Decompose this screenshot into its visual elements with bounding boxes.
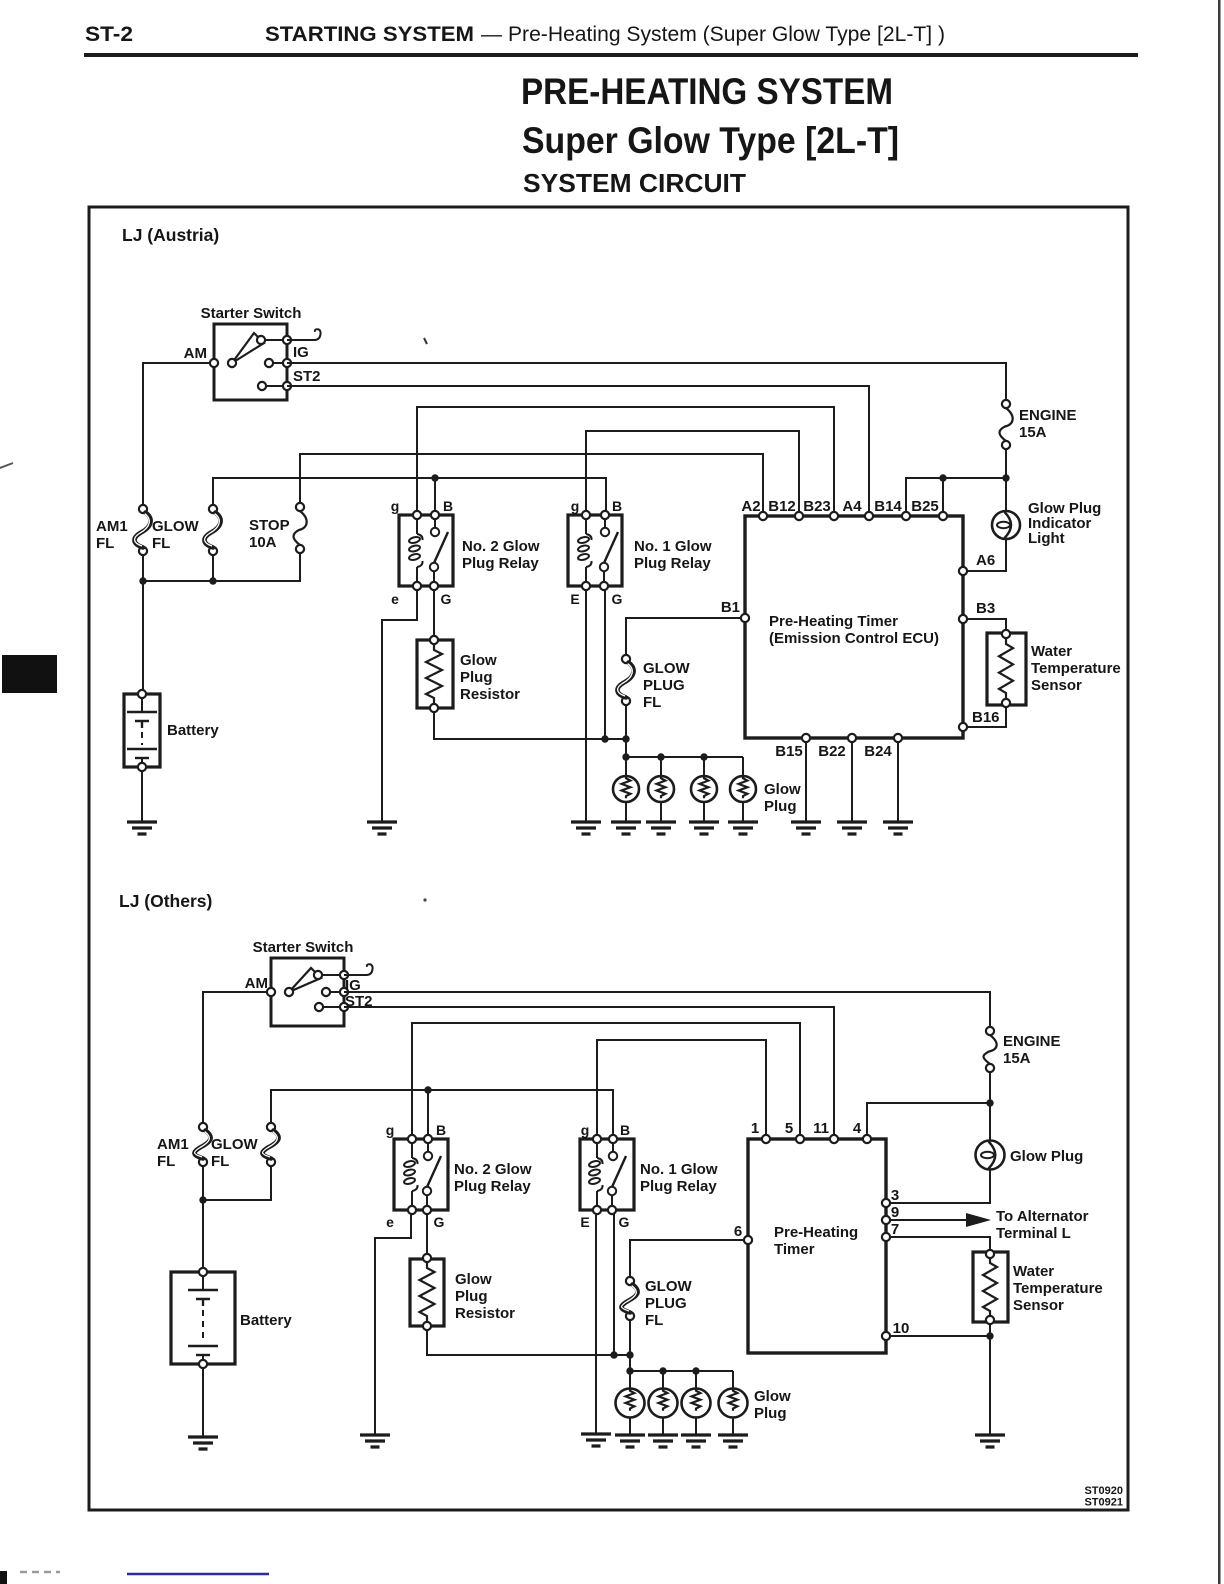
section label LJ (Austria) <box>122 225 219 245</box>
svg-text:B: B <box>620 1122 630 1138</box>
svg-text:Super Glow Type [2L-T]: Super Glow Type [2L-T] <box>522 120 899 161</box>
wire B22 ground <box>851 742 853 822</box>
label Glow Plug Resistor (2) <box>455 1271 515 1322</box>
label Water Temperature Sensor <box>1031 643 1121 694</box>
ground relay2 e (2) <box>360 1435 390 1447</box>
wire relay1 g to B12 <box>586 431 799 512</box>
ground relay1 E (2) <box>581 1434 611 1446</box>
svg-text:Light: Light <box>1028 530 1065 547</box>
lamp Glow Plug (2) <box>976 1141 1005 1170</box>
terminal 3 <box>882 1199 890 1207</box>
svg-text:B14: B14 <box>874 498 902 515</box>
timer top terminals (2) <box>762 1135 871 1143</box>
wire AM feed (2) <box>203 992 271 1123</box>
svg-text:GLOW: GLOW <box>152 518 199 535</box>
speck near LJ others <box>423 898 426 901</box>
wire glow plug bus <box>626 756 743 758</box>
relay No.1 Glow Plug Relay <box>568 511 622 590</box>
page header left "ST-2" <box>85 23 133 46</box>
svg-text:AM1: AM1 <box>96 518 128 535</box>
svg-text:B23: B23 <box>803 498 831 515</box>
svg-text:15A: 15A <box>1019 424 1047 441</box>
sensor Water Temperature Sensor <box>987 630 1026 707</box>
svg-text:No. 1 Glow: No. 1 Glow <box>634 538 712 555</box>
svg-text:Resistor: Resistor <box>455 1305 515 1322</box>
svg-text:Temperature: Temperature <box>1031 660 1121 677</box>
terminal 10 <box>882 1332 890 1340</box>
svg-text:STARTING SYSTEM: STARTING SYSTEM <box>265 22 474 46</box>
labels relay2 pins (2) <box>386 1122 446 1230</box>
ground glow plug 2 (2) <box>648 1435 678 1447</box>
fuse ENGINE 15A <box>999 400 1012 449</box>
ground glow plug 4 <box>728 822 758 834</box>
wire lamp to 3 <box>890 1170 990 1203</box>
label ENGINE 15A (2) <box>1003 1033 1061 1067</box>
wire glow plug 2 stub <box>660 757 662 776</box>
svg-text:4: 4 <box>853 1120 862 1137</box>
wire sensor to B16 <box>968 707 1006 727</box>
label Glow Plug lamp (2) <box>1010 1148 1083 1165</box>
sensor Water Temperature Sensor (2) <box>973 1250 1008 1324</box>
svg-text:A2: A2 <box>741 498 760 515</box>
fusible link GLOW PLUG FL <box>617 655 633 705</box>
svg-text:FL: FL <box>152 535 170 552</box>
junction GLOW bottom <box>209 577 216 584</box>
svg-text:FL: FL <box>645 1312 663 1329</box>
label AM (2) <box>245 975 268 992</box>
label GLOW FL <box>152 518 199 552</box>
svg-text:ENGINE: ENGINE <box>1003 1033 1061 1050</box>
section label LJ (Others) <box>119 891 212 911</box>
starter switch SW2 <box>267 958 348 1026</box>
wire GLOW to B bus (2) <box>271 1090 613 1135</box>
ground relay2 e <box>367 822 397 834</box>
wire relay2 g to B23 <box>417 407 834 512</box>
svg-text:Timer: Timer <box>774 1241 815 1258</box>
wire glow plug 4 gnd <box>742 802 744 822</box>
wire battery feed <box>142 581 144 690</box>
wire IG line (2) <box>344 992 990 1027</box>
ground glow plug 1 <box>611 822 641 834</box>
svg-text:No. 1 Glow: No. 1 Glow <box>640 1161 718 1178</box>
outer frame <box>89 207 1128 1510</box>
starter switch SW1 <box>210 324 291 400</box>
svg-text:B15: B15 <box>775 743 803 760</box>
wire battery feed (2) <box>202 1166 204 1268</box>
label STOP 10A <box>249 517 290 551</box>
svg-text:Plug Relay: Plug Relay <box>634 555 711 572</box>
svg-text:LJ (Others): LJ (Others) <box>119 891 212 911</box>
junction bus 2 <box>657 753 664 760</box>
page mark bottom-left bar <box>0 1571 7 1584</box>
svg-text:Glow: Glow <box>764 781 801 798</box>
label ST2 <box>293 368 321 385</box>
wire glow plug 4 stub (2) <box>732 1371 734 1389</box>
glow plug 3 <box>691 776 717 802</box>
svg-text:6: 6 <box>734 1223 742 1240</box>
junction lamp feed (2) <box>986 1099 993 1106</box>
title SYSTEM CIRCUIT <box>523 168 746 198</box>
wire relay2 e to ground (2) <box>375 1214 411 1435</box>
label 10 <box>893 1320 910 1337</box>
wire relay1 g to 1 <box>597 1040 766 1135</box>
ground glow plug 2 <box>646 822 676 834</box>
junction AM1 (2) <box>199 1196 206 1203</box>
svg-text:Water: Water <box>1013 1263 1054 1280</box>
wire 10 line <box>890 1335 990 1337</box>
label A6 <box>976 552 995 569</box>
junction G1/resistor (2) <box>610 1351 617 1358</box>
wire 7 to sensor <box>890 1237 990 1250</box>
label B16 <box>972 709 1000 726</box>
wire ST2 line (2) <box>344 1007 834 1135</box>
svg-text:AM: AM <box>184 345 207 362</box>
svg-text:B25: B25 <box>911 498 939 515</box>
arrow to alternator <box>966 1213 991 1227</box>
relay No.2 Glow Plug Relay <box>399 511 453 590</box>
wire B15 ground <box>805 742 807 822</box>
fusible link GLOW FL (2) <box>262 1123 278 1166</box>
page edge line right <box>1218 0 1221 1584</box>
ECU Pre-Heating Timer box <box>745 516 963 738</box>
svg-text:Pre-Heating: Pre-Heating <box>774 1224 858 1241</box>
ECU Pre-Heating Timer box (2) <box>748 1139 886 1353</box>
relay No.2 Glow Plug Relay (2) <box>394 1135 448 1214</box>
page tick left <box>0 463 13 468</box>
wire relay2 B drop <box>434 478 436 512</box>
svg-text:Sensor: Sensor <box>1013 1297 1064 1314</box>
labels relay2 pins <box>391 498 453 607</box>
svg-text:PLUG: PLUG <box>645 1295 687 1312</box>
wire relay1 E to ground (2) <box>595 1214 597 1434</box>
svg-text:FL: FL <box>643 694 661 711</box>
wire relay2 G to resistor (2) <box>426 1214 428 1255</box>
lamp Glow Plug Indicator Light <box>992 511 1020 539</box>
svg-text:g: g <box>571 498 580 514</box>
ground battery <box>127 822 157 834</box>
svg-text:B: B <box>443 498 453 514</box>
svg-text:B: B <box>436 1122 446 1138</box>
page header title <box>265 22 945 46</box>
label No. 2 Glow Plug Relay (2) <box>454 1161 532 1195</box>
label ST2 (2) <box>345 993 373 1010</box>
svg-text:G: G <box>434 1214 445 1230</box>
glow plug 2 (2) <box>649 1389 678 1418</box>
svg-text:Temperature: Temperature <box>1013 1280 1103 1297</box>
junction AM1 bottom <box>139 577 146 584</box>
wire glow plug 3 gnd (2) <box>695 1417 697 1435</box>
svg-text:Plug: Plug <box>754 1405 787 1422</box>
svg-text:Terminal L: Terminal L <box>996 1225 1071 1242</box>
wire FL to bus <box>625 705 627 757</box>
wire glow plug 2 gnd (2) <box>662 1417 664 1435</box>
ground sensor (2) <box>975 1435 1005 1447</box>
svg-text:IG: IG <box>293 344 309 361</box>
svg-text:(Emission Control ECU): (Emission Control ECU) <box>769 630 939 647</box>
label Pre-Heating Timer <box>769 613 939 647</box>
svg-text:15A: 15A <box>1003 1050 1031 1067</box>
svg-text:Plug Relay: Plug Relay <box>454 1178 531 1195</box>
label AM <box>184 345 207 362</box>
wire glow plug 1 gnd (2) <box>629 1417 631 1435</box>
label No. 1 Glow Plug Relay <box>634 538 712 572</box>
svg-text:G: G <box>619 1214 630 1230</box>
svg-text:Starter Switch: Starter Switch <box>253 939 354 956</box>
header rule <box>84 53 1138 57</box>
svg-text:1: 1 <box>751 1120 759 1137</box>
label B3 <box>976 600 995 617</box>
label B1 <box>721 599 740 616</box>
timer top terminals <box>759 512 947 520</box>
wire glow plug 2 gnd <box>660 802 662 822</box>
junction FL/resistor (2) <box>626 1351 633 1358</box>
svg-text:g: g <box>581 1122 590 1138</box>
page mark blue line <box>127 1573 269 1576</box>
junction 10/sensor <box>986 1332 993 1339</box>
label Starter Switch <box>201 305 302 322</box>
svg-text:Resistor: Resistor <box>460 686 520 703</box>
wire glow plug 4 stub <box>742 757 744 776</box>
timer bottom terminals <box>802 734 902 742</box>
wire accessory hook (2) <box>344 964 373 975</box>
ground B24 <box>883 822 913 834</box>
junction B25 feed <box>939 474 946 481</box>
svg-text:No. 2 Glow: No. 2 Glow <box>462 538 540 555</box>
svg-text:E: E <box>570 591 579 607</box>
wire IG line <box>287 363 1006 400</box>
terminal B1 <box>741 614 749 622</box>
wire glow plug 3 stub <box>703 757 705 776</box>
label To Alternator Terminal L <box>996 1208 1089 1242</box>
wire relay2 g to 5 <box>412 1023 800 1135</box>
label IG <box>293 344 309 361</box>
svg-text:B22: B22 <box>818 743 846 760</box>
svg-text:ENGINE: ENGINE <box>1019 407 1077 424</box>
label GLOW PLUG FL <box>643 660 690 711</box>
svg-text:PLUG: PLUG <box>643 677 685 694</box>
wire FL to bus (2) <box>629 1320 631 1371</box>
wire relay2 e to ground <box>382 590 417 822</box>
junction GLOW/B2 (2) <box>424 1086 431 1093</box>
label GLOW PLUG FL (2) <box>645 1278 692 1329</box>
terminal B16 <box>959 723 967 731</box>
wire glow plug 3 stub (2) <box>695 1371 697 1389</box>
junction GLOW/B2 <box>431 474 438 481</box>
svg-text:Plug: Plug <box>764 798 797 815</box>
code ST0920/ST0921 <box>1084 1485 1123 1509</box>
svg-text:SYSTEM CIRCUIT: SYSTEM CIRCUIT <box>523 168 746 198</box>
svg-text:ST2: ST2 <box>293 368 321 385</box>
wire STOP to A2 <box>300 454 763 512</box>
svg-text:A4: A4 <box>842 498 862 515</box>
svg-text:Plug Relay: Plug Relay <box>640 1178 717 1195</box>
label 6 <box>734 1223 742 1240</box>
svg-text:ST-2: ST-2 <box>85 23 133 46</box>
labels relay1 pins <box>570 498 622 607</box>
wire relay1 E to ground <box>585 590 587 822</box>
junction bus 2 (2) <box>659 1367 666 1374</box>
wire ST2 line <box>287 386 869 512</box>
junction bus left (2) <box>626 1367 633 1374</box>
svg-text:FL: FL <box>211 1153 229 1170</box>
svg-text:Sensor: Sensor <box>1031 677 1082 694</box>
wire B1 to FL <box>626 618 741 655</box>
label Glow Plug Indicator Light <box>1028 500 1101 547</box>
label GLOW FL (2) <box>211 1136 258 1170</box>
svg-text:AM1: AM1 <box>157 1136 189 1153</box>
battery BAT1 <box>124 690 160 771</box>
svg-text:A6: A6 <box>976 552 995 569</box>
wire glow plug 1 gnd <box>625 802 627 822</box>
svg-text:B1: B1 <box>721 599 740 616</box>
glow plug 1 <box>613 776 639 802</box>
label No. 2 Glow Plug Relay <box>462 538 540 572</box>
title Super Glow Type [2L-T] <box>522 120 899 161</box>
ground glow plug 1 (2) <box>615 1435 645 1447</box>
wire resistor out (2) <box>427 1330 630 1355</box>
wire 6 to FL <box>630 1240 744 1277</box>
labels timer top pins <box>741 498 938 515</box>
wire sensor to ground (2) <box>989 1324 991 1435</box>
svg-text:e: e <box>391 591 399 607</box>
svg-text:Glow: Glow <box>455 1271 492 1288</box>
title PRE-HEATING SYSTEM <box>521 71 893 112</box>
label 7 <box>891 1221 899 1238</box>
label Starter Switch (2) <box>253 939 354 956</box>
label 3 <box>891 1187 899 1204</box>
svg-text:FL: FL <box>157 1153 175 1170</box>
svg-text:— Pre-Heating System (Super Gl: — Pre-Heating System (Super Glow Type [2… <box>481 23 945 46</box>
wire B3 to sensor <box>968 619 1006 630</box>
svg-text:PRE-HEATING SYSTEM: PRE-HEATING SYSTEM <box>521 71 893 112</box>
wire glow plug 2 stub (2) <box>662 1371 664 1389</box>
svg-text:Glow: Glow <box>754 1388 791 1405</box>
wire relay1 G down <box>604 590 606 739</box>
svg-text:GLOW: GLOW <box>211 1136 258 1153</box>
glow plug 4 (2) <box>719 1389 748 1418</box>
wire fuse to lamp <box>1005 449 1007 511</box>
speck near switch <box>424 338 427 344</box>
ground B15 <box>791 822 821 834</box>
svg-text:B: B <box>612 498 622 514</box>
labels timer bottom pins <box>775 743 892 760</box>
terminal 7 <box>882 1233 890 1241</box>
svg-text:ST0921: ST0921 <box>1084 1497 1123 1509</box>
fusible link AM1 FL <box>134 505 150 555</box>
fusible link AM1 FL (2) <box>194 1123 210 1166</box>
ground relay1 E <box>571 822 601 834</box>
label IG (2) <box>345 977 361 994</box>
junction bus left <box>622 753 629 760</box>
label Water Temperature Sensor (2) <box>1013 1263 1103 1314</box>
label Battery (2) <box>240 1312 292 1329</box>
labels relay1 pins (2) <box>580 1122 630 1230</box>
fuse ENGINE 15A (2) <box>983 1027 996 1072</box>
glow plug 3 (2) <box>682 1389 711 1418</box>
label Glow Plug (top) <box>764 781 801 815</box>
label Battery <box>167 722 219 739</box>
terminal A6 <box>959 567 967 575</box>
wire relay2 G to resistor <box>433 590 435 636</box>
terminal 6 <box>744 1236 752 1244</box>
wire B24 ground <box>897 742 899 822</box>
svg-text:7: 7 <box>891 1221 899 1238</box>
svg-text:AM: AM <box>245 975 268 992</box>
svg-text:Plug Relay: Plug Relay <box>462 555 539 572</box>
junction bus 3 <box>700 753 707 760</box>
svg-text:Plug: Plug <box>460 669 493 686</box>
svg-text:STOP: STOP <box>249 517 290 534</box>
wire glow plug 1 stub <box>625 757 627 776</box>
junction bus 3 (2) <box>692 1367 699 1374</box>
label No. 1 Glow Plug Relay (2) <box>640 1161 718 1195</box>
glow plug 2 <box>648 776 674 802</box>
wire 9 to alternator <box>890 1219 967 1221</box>
wire fuse bottoms join <box>143 553 300 581</box>
svg-text:g: g <box>391 498 400 514</box>
svg-text:g: g <box>386 1122 395 1138</box>
svg-text:G: G <box>441 591 452 607</box>
wire glow plug 4 gnd (2) <box>732 1417 734 1435</box>
svg-text:Battery: Battery <box>167 722 219 739</box>
wire battery to ground (2) <box>202 1368 204 1437</box>
svg-text:B16: B16 <box>972 709 1000 726</box>
ground glow plug 3 <box>689 822 719 834</box>
svg-text:ST0920: ST0920 <box>1084 1485 1123 1497</box>
svg-text:LJ (Austria): LJ (Austria) <box>122 225 219 245</box>
junction FL/resistor line <box>622 735 629 742</box>
junction lamp feed <box>1002 474 1009 481</box>
svg-text:10A: 10A <box>249 534 277 551</box>
svg-text:GLOW: GLOW <box>643 660 690 677</box>
page mark bottom dashes <box>20 1571 60 1574</box>
svg-text:B3: B3 <box>976 600 995 617</box>
ground B22 <box>837 822 867 834</box>
fuse STOP 10A <box>293 503 306 553</box>
glow plug 4 <box>730 776 756 802</box>
wire B14 B25 feed <box>906 478 1006 512</box>
wire B25 drop <box>942 478 944 512</box>
svg-text:Pre-Heating Timer: Pre-Heating Timer <box>769 613 898 630</box>
wire GLOW bottom <box>212 555 214 581</box>
svg-text:5: 5 <box>785 1120 793 1137</box>
label AM1 FL <box>96 518 128 552</box>
label ENGINE 15A <box>1019 407 1077 441</box>
page tab black <box>2 655 57 693</box>
svg-text:G: G <box>612 591 623 607</box>
svg-text:To Alternator: To Alternator <box>996 1208 1089 1225</box>
svg-text:Water: Water <box>1031 643 1072 660</box>
fusible link GLOW FL <box>204 505 220 555</box>
label AM1 FL (2) <box>157 1136 189 1170</box>
glow plug 1 (2) <box>616 1389 645 1418</box>
label Glow Plug Resistor <box>460 652 520 703</box>
terminal B3 <box>959 615 967 623</box>
wire fuse to lamp (2) <box>989 1072 991 1140</box>
svg-text:FL: FL <box>96 535 114 552</box>
svg-text:3: 3 <box>891 1187 899 1204</box>
labels timer top pins (2) <box>751 1120 862 1137</box>
ground glow plug 3 (2) <box>681 1435 711 1447</box>
wire glow plug 1 stub (2) <box>629 1371 631 1389</box>
label Pre-Heating Timer (2) <box>774 1224 858 1258</box>
wire resistor out <box>434 712 626 739</box>
svg-text:B24: B24 <box>864 743 892 760</box>
wire battery to ground <box>141 771 143 822</box>
ground battery (2) <box>188 1437 218 1449</box>
wire lamp to A6 <box>968 539 1006 571</box>
terminal 9 <box>882 1216 890 1224</box>
